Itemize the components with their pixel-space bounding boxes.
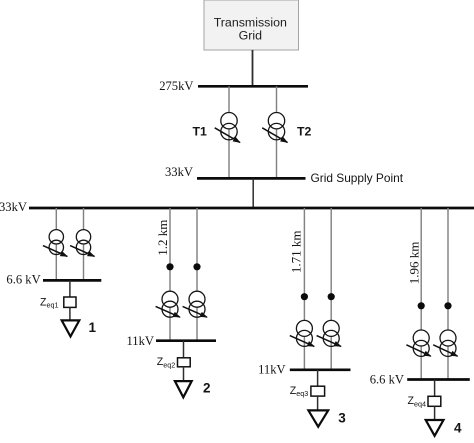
busbar 33kV main distribution: [29, 207, 474, 210]
busbar 11kV feeder3: [290, 368, 351, 371]
transformer feeder3 left: [290, 320, 314, 346]
impedance Zeq4: [428, 396, 441, 406]
svg-text:2: 2: [203, 380, 211, 395]
wire: grid box to 275kV bus: [252, 50, 254, 86]
busbar 11kV feeder2: [156, 339, 216, 342]
svg-text:4: 4: [454, 421, 462, 436]
svg-text:275kV: 275kV: [159, 79, 193, 93]
svg-text:11kV: 11kV: [258, 363, 286, 377]
wire: feeder2 bus to Zeq2: [183, 341, 185, 358]
wire: feeder1 bus to Zeq1: [69, 280, 71, 297]
wire: GSP to main 33kV bus: [252, 178, 254, 208]
wire: feeder1 left column: [55, 208, 57, 280]
wire: feeder2 left column: [169, 208, 171, 341]
svg-text:6.6 kV: 6.6 kV: [370, 372, 404, 386]
transformer feeder3 right: [317, 320, 341, 346]
node feeder3 left cable junction: [301, 293, 308, 300]
wire: feeder1 right column: [83, 208, 85, 280]
busbar 33kV grid supply point: [197, 177, 306, 180]
node feeder2 right cable junction: [193, 263, 200, 270]
svg-text:3: 3: [338, 411, 346, 426]
load 1 arrow: [62, 320, 80, 336]
svg-text:Grid Supply Point: Grid Supply Point: [311, 171, 404, 185]
svg-text:1.71 km: 1.71 km: [289, 230, 304, 273]
svg-text:6.6 kV: 6.6 kV: [6, 273, 40, 287]
wire: T2 column: [276, 86, 278, 178]
busbar 6.6kV feeder1: [43, 279, 101, 282]
wire: Zeq1 to load 1: [69, 307, 71, 320]
svg-text:1.2 km: 1.2 km: [155, 220, 170, 256]
svg-text:11kV: 11kV: [126, 334, 154, 348]
svg-text:1.96 km: 1.96 km: [406, 242, 421, 285]
busbar 6.6kV feeder4: [407, 378, 470, 381]
wire: T1 column: [228, 86, 230, 178]
wire: feeder4 left column: [420, 208, 422, 380]
node feeder3 right cable junction: [328, 293, 335, 300]
wire: Zeq2 to load 2: [183, 367, 185, 381]
wire: feeder3 bus to Zeq3: [317, 370, 319, 386]
impedance Zeq3: [311, 386, 325, 396]
load 2 arrow: [175, 381, 192, 397]
transformer feeder4 left: [406, 330, 430, 356]
svg-text:Transmission: Transmission: [214, 15, 287, 29]
transformer T1: [215, 113, 240, 143]
svg-text:33kV: 33kV: [165, 165, 193, 179]
transformer feeder1 right: [70, 230, 94, 257]
wire: feeder4 bus to Zeq4: [434, 380, 436, 397]
transmission grid box: [204, 0, 299, 50]
transformer T2: [262, 113, 287, 143]
wire: feeder2 right column: [196, 208, 198, 341]
svg-text:33kV: 33kV: [0, 200, 27, 214]
wire: feeder3 right column: [330, 208, 332, 370]
svg-text:T1: T1: [193, 124, 208, 138]
svg-text:T2: T2: [297, 125, 312, 139]
load 4 arrow: [426, 420, 444, 436]
node feeder4 left cable junction: [418, 302, 425, 309]
transformer feeder1 left: [43, 230, 67, 257]
wire: feeder4 right column: [447, 208, 449, 380]
impedance Zeq1: [64, 297, 76, 307]
svg-text:Grid: Grid: [239, 28, 263, 42]
impedance Zeq2: [178, 358, 191, 367]
transformer feeder4 right: [433, 330, 457, 356]
load 3 arrow: [308, 410, 328, 426]
svg-text:1: 1: [89, 320, 97, 335]
busbar 275kV: [198, 85, 308, 88]
wire: Zeq4 to load 4: [434, 406, 436, 419]
wire: Zeq3 to load 3: [317, 396, 319, 410]
node feeder2 left cable junction: [166, 263, 173, 270]
wire: feeder3 left column: [303, 208, 305, 370]
transformer feeder2 left: [156, 291, 180, 317]
transformer feeder2 right: [183, 291, 207, 317]
node feeder4 right cable junction: [444, 302, 451, 309]
